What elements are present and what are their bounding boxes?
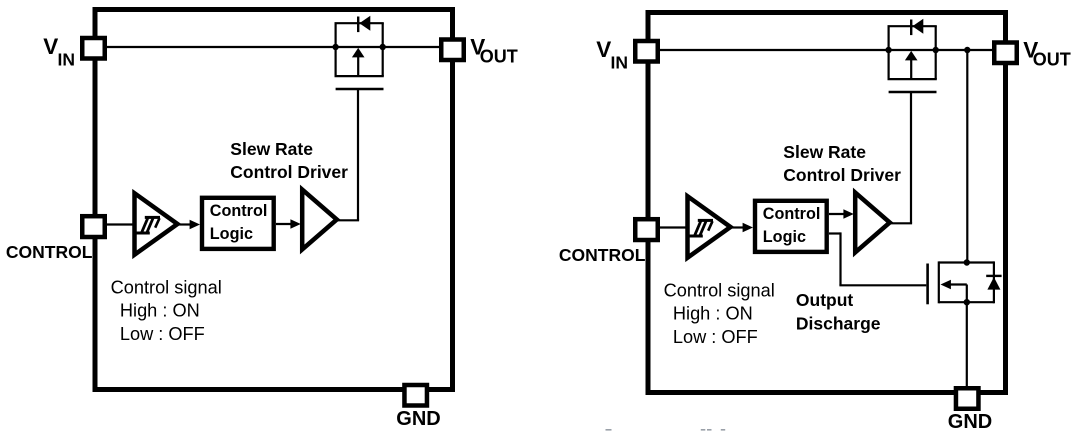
Q3 channel loop <box>938 261 940 303</box>
svg-text:Control Driver: Control Driver <box>783 165 901 185</box>
label VIN (right) <box>596 37 628 73</box>
svg-text:Discharge: Discharge <box>796 313 881 333</box>
Q1 gate plate <box>336 88 384 91</box>
pin VOUT (right diagram) <box>994 43 1017 64</box>
label GND (right) <box>948 411 992 433</box>
svg-text:Control signal: Control signal <box>111 277 222 297</box>
svg-text:Control signal: Control signal <box>664 280 775 300</box>
node: Q1 source junction dot (left) <box>380 44 386 50</box>
wire gate of Q2 to driver output (right) <box>889 92 912 223</box>
wire CONTROL pin to Schmitt buffer (right) <box>658 226 686 228</box>
Q1 body diode cathode bar <box>357 17 359 33</box>
note Control signal High/Low (right) <box>664 280 775 347</box>
svg-text:OUT: OUT <box>1033 50 1071 70</box>
svg-text:GND: GND <box>948 411 992 433</box>
Q1 channel loop <box>335 23 337 76</box>
note Control signal High/Low (left) <box>111 277 222 344</box>
Q2 body diode triangle <box>912 19 923 34</box>
PMOS pass transistor Q2 (right diagram) <box>888 19 937 92</box>
op-amp: slew rate control driver triangle (right) <box>855 193 890 253</box>
wire VOUT node down to discharge NMOS drain (right) <box>966 50 968 263</box>
IC outline border (left diagram) <box>95 10 453 390</box>
label Slew Rate Control Driver (left) <box>230 139 348 182</box>
pin CONTROL (right diagram) <box>635 219 658 240</box>
label VIN (left) <box>43 34 75 70</box>
label Output Discharge (right) <box>796 290 881 333</box>
Q1 body diode triangle <box>359 16 370 31</box>
svg-text:V: V <box>596 37 611 62</box>
Schmitt trigger input buffer (right) <box>688 196 731 258</box>
Q2 source arrow <box>905 51 918 61</box>
Q3 body diode cathode bar <box>986 275 1001 277</box>
svg-text:High : ON: High : ON <box>673 304 753 324</box>
svg-text:GND: GND <box>396 408 440 430</box>
svg-text:Control: Control <box>763 205 821 223</box>
wire Control Logic to driver with arrowhead (left) <box>276 219 301 229</box>
Q2 body diode cathode bar <box>910 20 912 36</box>
pin VIN (left diagram) <box>82 38 105 59</box>
label GND (left) <box>396 408 440 430</box>
svg-text:Output: Output <box>796 290 854 310</box>
wire Q3 source to GND pin (right) <box>966 302 968 392</box>
Control Logic block U2 (right) <box>755 201 827 252</box>
svg-text:CONTROL: CONTROL <box>6 242 93 262</box>
Q2 gate plate <box>889 91 937 94</box>
svg-text:IN: IN <box>58 50 76 70</box>
Q3 body tie arrow <box>949 283 967 285</box>
svg-text:Logic: Logic <box>210 225 253 243</box>
cropped caption remnants (faint marks at bottom) <box>606 429 726 431</box>
svg-text:Logic: Logic <box>763 228 806 246</box>
node: Q3 source junction dot <box>964 299 970 305</box>
Q1 source arrow <box>352 48 365 58</box>
svg-text:Low : OFF: Low : OFF <box>120 324 205 344</box>
discharge NMOS transistor Q3 (right diagram) <box>928 261 1002 304</box>
pin CONTROL (left diagram) <box>82 216 105 237</box>
svg-text:Slew Rate: Slew Rate <box>230 139 313 159</box>
wire VIN to VOUT (main power rail, left) <box>96 46 452 48</box>
svg-text:V: V <box>43 34 58 59</box>
node: Q2 drain junction dot (right) <box>885 47 891 53</box>
node: Q1 drain junction dot (left) <box>332 44 338 50</box>
Schmitt trigger input buffer (left) <box>135 193 178 255</box>
label CONTROL (right) <box>559 245 646 265</box>
label VOUT (right) <box>1023 37 1071 69</box>
node: VOUT discharge junction dot (right) <box>964 47 970 53</box>
svg-text:Slew Rate: Slew Rate <box>783 142 866 162</box>
wire CONTROL pin to Schmitt buffer (left) <box>105 223 133 225</box>
svg-text:OUT: OUT <box>480 47 518 67</box>
wire VIN to VOUT (main power rail, right) <box>649 49 1005 51</box>
wire Control Logic to driver with arrowhead (right) <box>829 209 854 219</box>
wire gate of Q1 to driver output (left) <box>336 89 359 220</box>
label VOUT (left) <box>470 34 518 66</box>
node: Q3 drain junction dot <box>964 259 970 265</box>
svg-text:Control Driver: Control Driver <box>230 162 348 182</box>
pin VIN (right diagram) <box>635 41 658 62</box>
wire Schmitt buffer to Control Logic with arrowhead (right) <box>730 223 753 233</box>
Q2 channel loop <box>887 26 889 79</box>
node: Q2 source junction dot (right) <box>933 47 939 53</box>
IC outline border (right diagram) <box>648 13 1006 393</box>
PMOS pass transistor Q1 (left diagram) <box>335 16 384 89</box>
pin VOUT (left diagram) <box>441 40 464 61</box>
svg-text:Control: Control <box>210 202 268 220</box>
label CONTROL (left) <box>6 242 93 262</box>
svg-text:High : ON: High : ON <box>120 301 200 321</box>
svg-text:Low : OFF: Low : OFF <box>673 327 758 347</box>
wire Control Logic to discharge NMOS gate (right) <box>829 232 926 285</box>
Q3 body diode triangle <box>987 277 1000 290</box>
svg-text:CONTROL: CONTROL <box>559 245 646 265</box>
wire Schmitt buffer to Control Logic with arrowhead (left) <box>177 220 200 230</box>
pin GND (left diagram) <box>404 385 427 406</box>
hysteresis symbol <box>135 232 150 235</box>
op-amp: slew rate control driver triangle (left) <box>302 190 337 250</box>
Q3 gate plate <box>926 264 929 305</box>
pin GND (right diagram) <box>956 388 979 409</box>
Control Logic block U1 (left) <box>202 198 274 249</box>
hysteresis symbol <box>688 235 703 238</box>
svg-text:IN: IN <box>611 53 629 73</box>
label Slew Rate Control Driver (right) <box>783 142 901 185</box>
